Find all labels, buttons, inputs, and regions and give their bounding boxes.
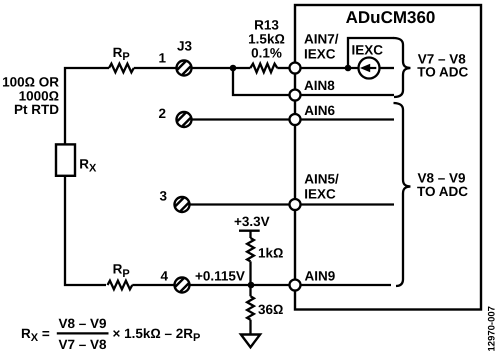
svg-text:4: 4 bbox=[160, 269, 168, 284]
pad J3-1 bbox=[177, 61, 192, 76]
wire node A down to AIN8 bbox=[233, 68, 292, 95]
wire Rp to pad1 bbox=[134, 67, 176, 69]
pin AIN6 circle bbox=[290, 114, 301, 125]
pin AIN5 circle bbox=[290, 199, 301, 210]
pin AIN8 circle bbox=[290, 90, 301, 101]
wire pad2 to AIN6 bbox=[193, 118, 292, 120]
supply rail bar bbox=[239, 230, 260, 232]
wire node B to 36ohm bbox=[249, 285, 251, 296]
svg-text:2: 2 bbox=[158, 106, 166, 121]
wire AIN6 to brace bbox=[300, 118, 394, 120]
svg-text:1kΩ: 1kΩ bbox=[258, 245, 283, 260]
wire 36ohm to ground bbox=[249, 320, 251, 334]
wire 1k to node B bbox=[249, 261, 251, 285]
wire IEXC source to brace bbox=[380, 67, 394, 69]
wire AIN8 to brace bbox=[300, 94, 394, 96]
IC U1 ADuCM360 box bbox=[295, 5, 481, 310]
svg-text:0.1%: 0.1% bbox=[251, 46, 282, 61]
svg-text:V8 – V9: V8 – V9 bbox=[58, 316, 106, 331]
wire AIN5 to brace bbox=[300, 203, 394, 205]
wire rail to R 1k bbox=[249, 231, 251, 238]
wire pad4 to AIN9 bbox=[191, 284, 292, 286]
svg-text:Pt RTD: Pt RTD bbox=[14, 102, 59, 117]
svg-text:+3.3V: +3.3V bbox=[234, 214, 270, 229]
svg-text:AIN8: AIN8 bbox=[304, 78, 335, 93]
svg-text:IEXC: IEXC bbox=[304, 187, 336, 202]
pad J3-3 bbox=[175, 197, 190, 212]
resistor RP (bottom) bbox=[108, 281, 133, 290]
brace V7-V8 bbox=[394, 38, 411, 97]
pin AIN9 circle bbox=[290, 280, 301, 291]
svg-text:ADuCM360: ADuCM360 bbox=[346, 8, 436, 27]
resistor 36ohm bbox=[247, 296, 254, 319]
resistor 1k bbox=[247, 238, 254, 261]
ground bbox=[241, 335, 260, 348]
node dot C (IEXC tap) bbox=[345, 65, 352, 72]
node dot A (pad1/R13/AIN8 tap) bbox=[230, 65, 237, 72]
svg-text:IEXC: IEXC bbox=[304, 47, 336, 62]
resistor RP (top) bbox=[109, 64, 134, 73]
svg-text:1.5kΩ: 1.5kΩ bbox=[248, 32, 285, 47]
svg-text:3: 3 bbox=[159, 189, 167, 204]
svg-text:AIN6: AIN6 bbox=[304, 103, 335, 118]
svg-text:100Ω OR: 100Ω OR bbox=[2, 75, 59, 90]
brace V8-V9 bbox=[394, 103, 411, 286]
svg-text:TO ADC: TO ADC bbox=[417, 65, 468, 80]
svg-text:+0.115V: +0.115V bbox=[195, 268, 245, 283]
resistor R13 bbox=[250, 64, 277, 73]
svg-text:TO ADC: TO ADC bbox=[417, 184, 468, 199]
svg-text:AIN5/: AIN5/ bbox=[304, 172, 339, 187]
wire left vertical below Rx bbox=[65, 176, 106, 285]
svg-text:IEXC: IEXC bbox=[352, 43, 384, 58]
wire AIN9 to brace bbox=[300, 284, 391, 286]
svg-text:V7 – V8: V7 – V8 bbox=[58, 337, 107, 352]
resistor RX (body) bbox=[56, 144, 75, 175]
wire pad1 to R13 bbox=[193, 67, 251, 69]
wire R13 to AIN7 pin bbox=[277, 67, 290, 69]
svg-text:J3: J3 bbox=[177, 39, 193, 54]
IEXC callout bracket bbox=[348, 38, 394, 68]
current source I1 arrow bbox=[367, 67, 376, 69]
wire pad3 to AIN5 bbox=[191, 203, 292, 205]
svg-text:1000Ω: 1000Ω bbox=[19, 88, 59, 103]
current source I1 circle bbox=[359, 58, 380, 79]
wire top-left horizontal (RTD node to Rp) bbox=[65, 68, 109, 144]
node dot B (+0.115V node) bbox=[248, 282, 255, 289]
pad J3-2 bbox=[177, 112, 192, 127]
pad J3-4 bbox=[175, 278, 190, 293]
wire AIN7 pin to IEXC source bbox=[300, 67, 358, 69]
wire Rp2 to pad4 bbox=[132, 284, 173, 286]
pin AIN7 circle bbox=[290, 63, 301, 74]
svg-text:12970-007: 12970-007 bbox=[487, 306, 498, 351]
svg-text:36Ω: 36Ω bbox=[258, 302, 283, 317]
svg-text:1: 1 bbox=[158, 50, 166, 65]
svg-text:AIN9: AIN9 bbox=[305, 269, 336, 284]
svg-text:AIN7/: AIN7/ bbox=[304, 31, 339, 46]
svg-text:R13: R13 bbox=[254, 18, 279, 33]
